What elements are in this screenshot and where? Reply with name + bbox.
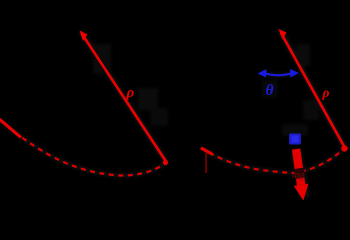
arrowhead right of oscillation arrow: [290, 69, 299, 78]
svg-text:ρ: ρ: [322, 85, 330, 100]
trajectory arc (right, dashed): [201, 148, 345, 173]
junction blob right: [341, 145, 347, 151]
solid lead segment of right arc: [201, 148, 212, 154]
artifact glow group: [0, 30, 345, 198]
radius arrow rho (left line): [80, 31, 168, 164]
height line h: [205, 153, 207, 173]
svg-text:θ: θ: [266, 82, 274, 99]
svg-text:mg: mg: [292, 170, 304, 181]
mg force arrow (thick red, tilted): [289, 148, 311, 202]
oscillation double arrow (blue): [262, 73, 295, 76]
trajectory arc (left, dashed): [0, 120, 166, 176]
radius arrow rho (right line): [279, 29, 346, 148]
svg-text:ρ: ρ: [126, 85, 135, 101]
pendulum bob (blue square): [289, 134, 301, 145]
junction blob left: [163, 160, 168, 165]
solid lead segment of left arc: [0, 118, 21, 138]
arrowhead left of oscillation arrow: [258, 69, 267, 78]
